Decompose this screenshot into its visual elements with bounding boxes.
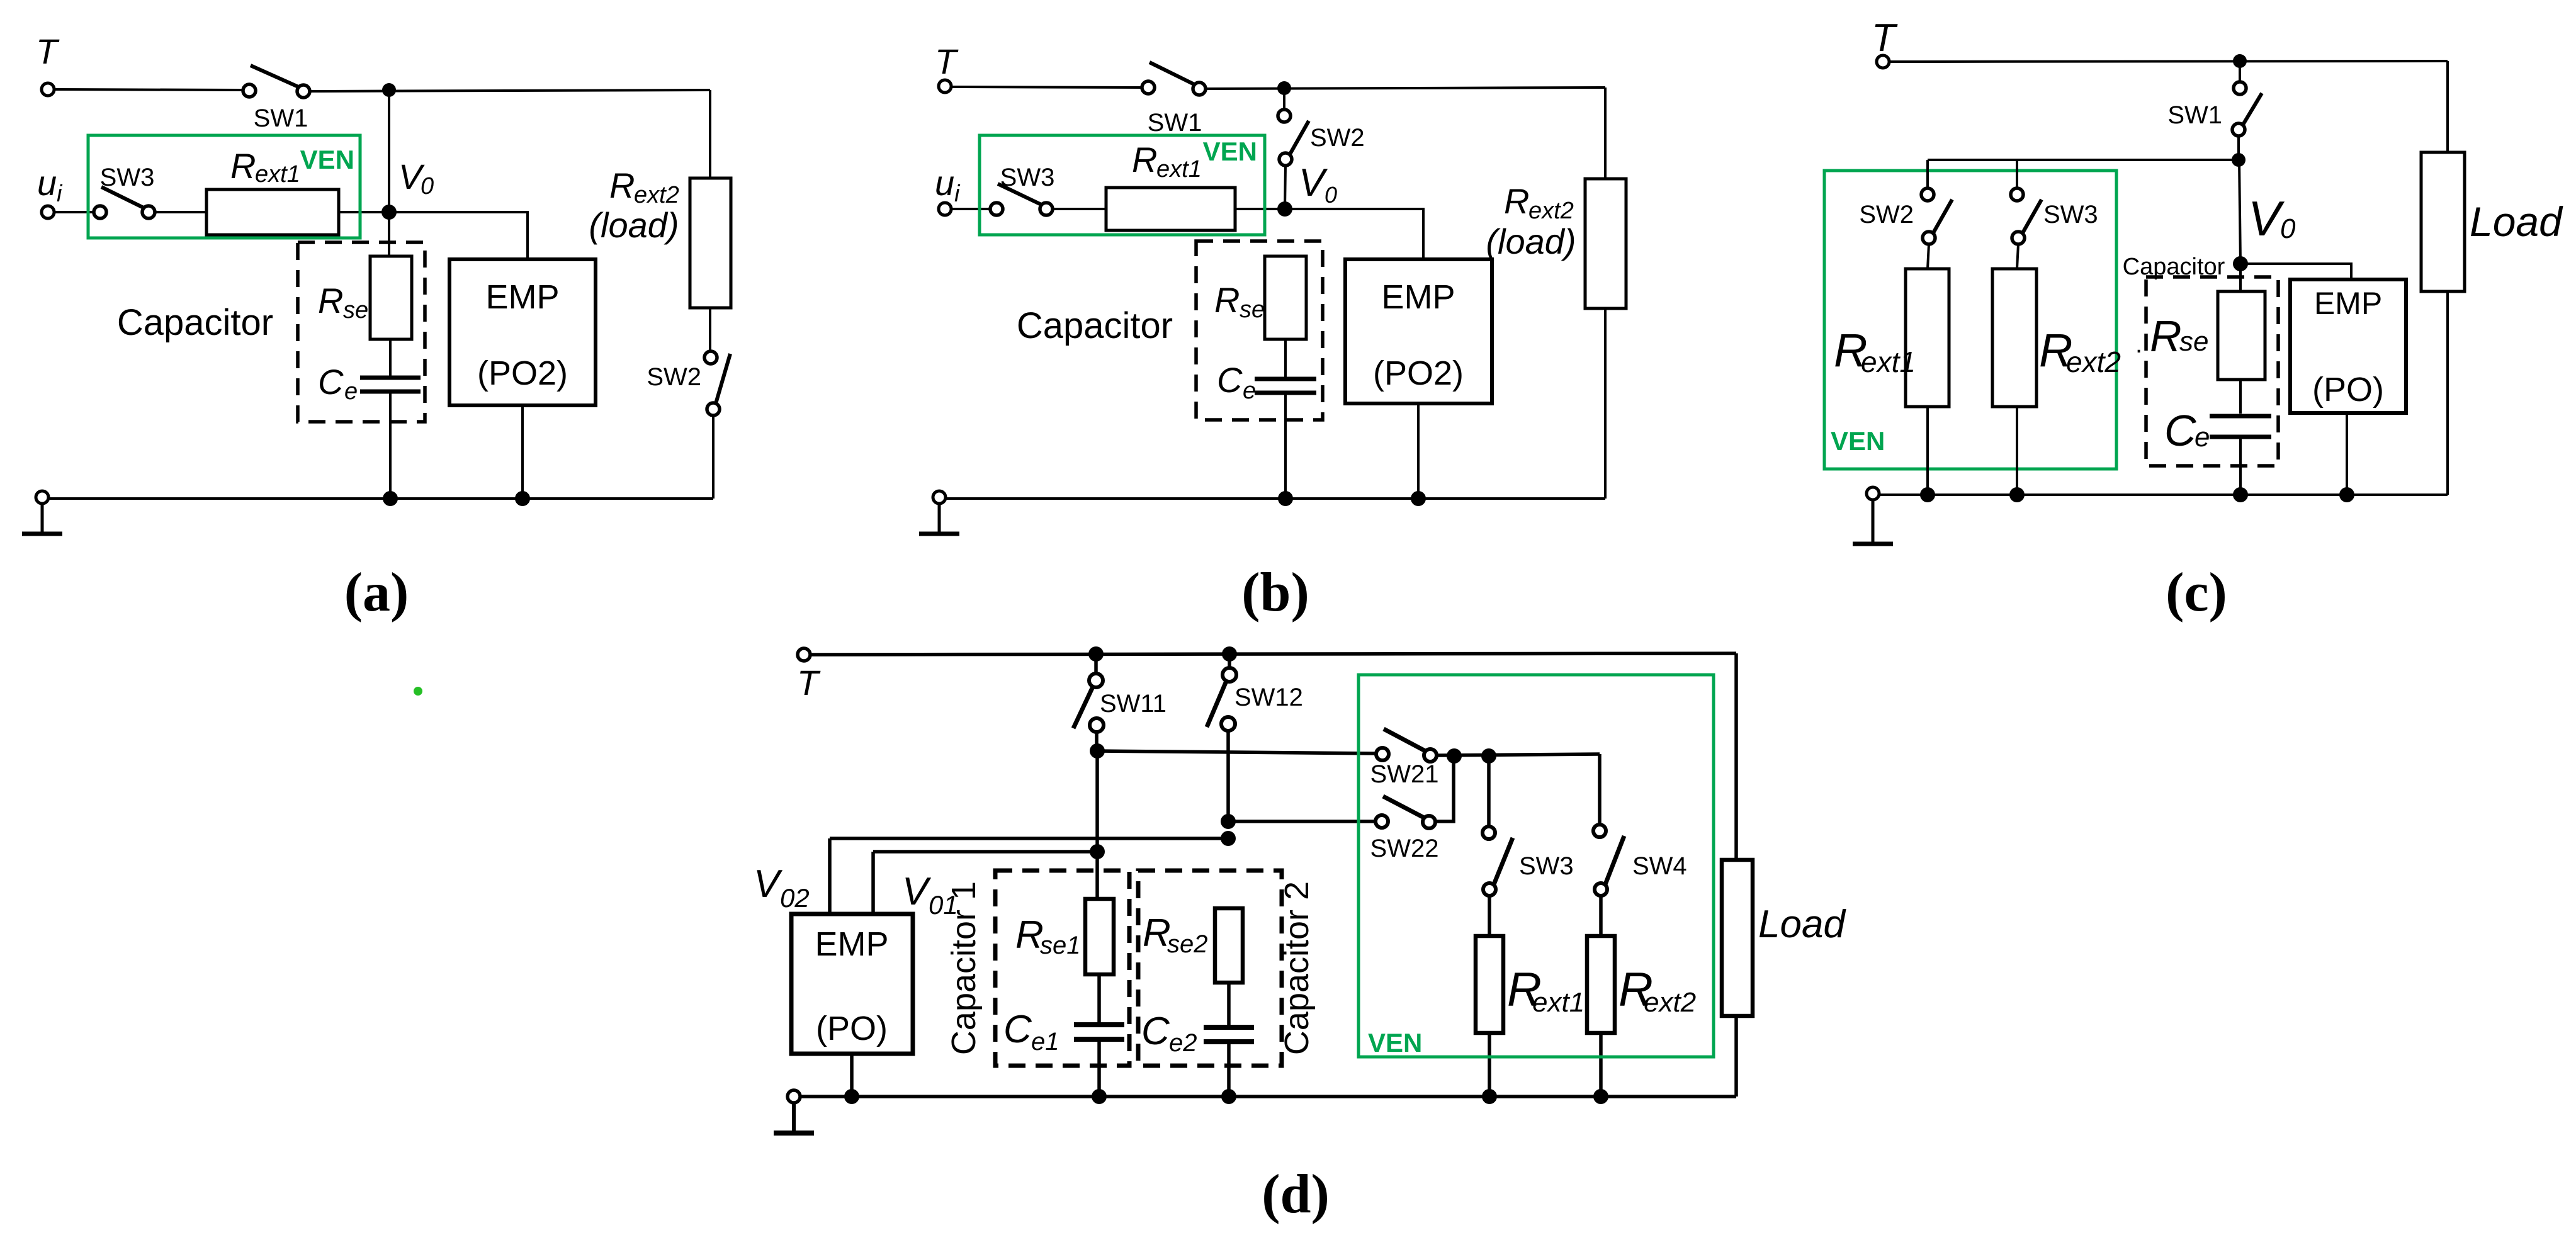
- svg-text:0: 0: [2280, 213, 2296, 244]
- svg-text:se2: se2: [1167, 930, 1208, 958]
- svg-text:SW1: SW1: [254, 104, 308, 132]
- svg-text:V: V: [754, 862, 783, 906]
- svg-text:se1: se1: [1040, 932, 1081, 959]
- svg-text:T: T: [797, 663, 821, 702]
- svg-text:EMP: EMP: [1381, 278, 1455, 316]
- svg-text:u: u: [37, 163, 57, 203]
- svg-text:(a): (a): [344, 562, 409, 623]
- svg-text:SW12: SW12: [1234, 684, 1303, 711]
- svg-text:Load: Load: [2470, 198, 2563, 245]
- svg-text:EMP: EMP: [815, 925, 888, 963]
- svg-text:ext2: ext2: [1644, 987, 1696, 1018]
- svg-text:(PO): (PO): [2312, 371, 2384, 409]
- svg-text:e1: e1: [1031, 1028, 1059, 1056]
- svg-text:EMP: EMP: [485, 278, 559, 316]
- svg-text:ext2: ext2: [634, 182, 679, 208]
- svg-text:R: R: [2150, 312, 2182, 361]
- svg-text:SW11: SW11: [1100, 690, 1167, 718]
- svg-text:VEN: VEN: [1368, 1028, 1422, 1057]
- svg-text:SW22: SW22: [1370, 835, 1439, 862]
- svg-text:V: V: [1299, 161, 1328, 205]
- svg-text:se: se: [1240, 296, 1265, 323]
- svg-text:SW1: SW1: [2167, 101, 2222, 129]
- svg-text:ext2: ext2: [1528, 198, 1574, 224]
- svg-text:(c): (c): [2166, 562, 2227, 623]
- svg-text:e: e: [1243, 378, 1256, 404]
- svg-text:T: T: [1872, 16, 1898, 60]
- svg-text:R: R: [609, 166, 635, 205]
- svg-text:.: .: [2135, 330, 2142, 358]
- svg-text:(b): (b): [1241, 562, 1309, 623]
- svg-text:Load: Load: [1758, 903, 1846, 946]
- svg-text:u: u: [935, 163, 954, 203]
- svg-text:VEN: VEN: [300, 145, 354, 174]
- svg-text:(d): (d): [1262, 1164, 1330, 1225]
- svg-text:(PO2): (PO2): [1373, 354, 1464, 392]
- svg-text:EMP: EMP: [2314, 286, 2382, 321]
- svg-text:C: C: [1003, 1008, 1032, 1051]
- svg-text:0: 0: [421, 173, 434, 200]
- svg-text:ext1: ext1: [1156, 156, 1202, 183]
- svg-text:SW21: SW21: [1370, 760, 1439, 788]
- svg-text:R: R: [1214, 280, 1240, 320]
- svg-text:e: e: [2195, 422, 2210, 453]
- svg-text:R: R: [1132, 140, 1157, 179]
- svg-text:(load): (load): [1486, 222, 1576, 261]
- svg-text:SW3: SW3: [2043, 201, 2098, 228]
- svg-text:SW3: SW3: [100, 164, 155, 191]
- svg-text:C: C: [1217, 360, 1243, 400]
- svg-text:Capacitor: Capacitor: [1017, 305, 1173, 346]
- svg-text:02: 02: [780, 883, 810, 913]
- svg-text:se: se: [2179, 326, 2208, 357]
- svg-text:SW2: SW2: [1859, 201, 1914, 228]
- svg-text:Capacitor 1: Capacitor 1: [945, 881, 983, 1055]
- svg-text:SW3: SW3: [1000, 164, 1055, 191]
- svg-text:SW1: SW1: [1148, 109, 1202, 137]
- svg-text:V: V: [902, 870, 932, 913]
- svg-text:SW3: SW3: [1519, 852, 1574, 880]
- svg-text:SW2: SW2: [1310, 124, 1365, 152]
- svg-text:VEN: VEN: [1203, 137, 1257, 166]
- svg-text:VEN: VEN: [1831, 426, 1885, 456]
- svg-text:T: T: [36, 31, 60, 71]
- svg-text:C: C: [2164, 406, 2196, 455]
- svg-text:ext1: ext1: [1861, 346, 1916, 378]
- svg-text:ext1: ext1: [1532, 987, 1585, 1018]
- svg-text:ext1: ext1: [255, 161, 300, 188]
- svg-text:T: T: [935, 42, 959, 81]
- svg-text:C: C: [1141, 1010, 1170, 1053]
- svg-text:ext2: ext2: [2066, 346, 2121, 378]
- svg-text:e2: e2: [1169, 1029, 1197, 1057]
- svg-text:(PO2): (PO2): [477, 354, 568, 392]
- svg-text:e: e: [344, 378, 358, 405]
- svg-text:(load): (load): [589, 205, 679, 245]
- svg-text:(PO): (PO): [816, 1010, 888, 1047]
- svg-text:R: R: [230, 146, 256, 186]
- svg-text:C: C: [318, 362, 344, 402]
- svg-text:R: R: [318, 281, 343, 320]
- svg-text:SW4: SW4: [1632, 852, 1687, 880]
- svg-text:Capacitor: Capacitor: [117, 302, 273, 343]
- svg-text:R: R: [1504, 181, 1529, 221]
- svg-text:SW2: SW2: [647, 363, 701, 391]
- svg-text:se: se: [343, 297, 368, 324]
- svg-text:0: 0: [1325, 182, 1337, 208]
- svg-text:Capacitor 2: Capacitor 2: [1278, 881, 1316, 1055]
